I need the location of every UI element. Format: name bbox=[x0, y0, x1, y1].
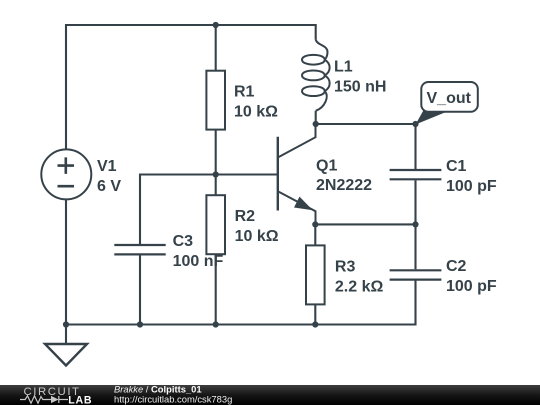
svg-text:10 kΩ: 10 kΩ bbox=[235, 228, 279, 245]
transistor Q1 bbox=[278, 124, 316, 224]
junction V_out node bbox=[412, 121, 418, 127]
svg-text:Q1: Q1 bbox=[316, 158, 337, 175]
wire R1 bottom to base node bbox=[215, 130, 217, 175]
svg-text:C1: C1 bbox=[446, 158, 467, 175]
resistor R2 bbox=[206, 195, 225, 254]
svg-text:2N2222: 2N2222 bbox=[316, 177, 372, 194]
junction collector node L1 bbox=[313, 121, 319, 127]
wire C2 top bbox=[414, 224, 416, 269]
junction ground rail V1 bbox=[63, 321, 69, 327]
wire R2 top bbox=[215, 175, 217, 196]
svg-text:R1: R1 bbox=[234, 84, 255, 101]
label R1 10 kOhm bbox=[234, 84, 278, 121]
svg-text:L1: L1 bbox=[334, 59, 353, 76]
junction top rail R1 bbox=[213, 22, 219, 28]
svg-text:R2: R2 bbox=[235, 208, 256, 225]
svg-text:V_out: V_out bbox=[427, 90, 472, 107]
label Q1 2N2222 bbox=[316, 158, 372, 194]
svg-text:http://circuitlab.com/csk783g: http://circuitlab.com/csk783g bbox=[114, 394, 232, 405]
svg-text:100 pF: 100 pF bbox=[446, 178, 497, 195]
label L1 150 nH bbox=[334, 59, 386, 96]
junction ground rail R2 bbox=[213, 321, 219, 327]
wire collector node to V_out node bbox=[316, 123, 416, 125]
wire base from C3 corner to Q1 base bbox=[140, 175, 278, 246]
junction ground rail R3 bbox=[312, 321, 318, 327]
label C2 100 pF bbox=[446, 258, 497, 295]
wire top rail from V1 to L1 bbox=[66, 25, 316, 150]
wire R2 bottom bbox=[215, 254, 217, 324]
svg-text:R3: R3 bbox=[335, 258, 356, 275]
label C3 100 nF bbox=[173, 233, 224, 270]
wire C1 bottom bbox=[414, 180, 416, 224]
svg-text:C2: C2 bbox=[446, 258, 467, 275]
capacitor C2 bbox=[390, 270, 442, 279]
svg-text:100 nF: 100 nF bbox=[173, 253, 224, 270]
CircuitLab logo diode triangle bbox=[51, 396, 59, 403]
resistor R3 bbox=[306, 245, 325, 304]
wire R3 bottom bbox=[314, 304, 316, 324]
label R3 2.2 kOhm bbox=[335, 258, 384, 295]
capacitor C3 bbox=[114, 245, 165, 254]
inductor L1 coil bbox=[302, 40, 330, 111]
svg-text:6 V: 6 V bbox=[97, 178, 121, 195]
CircuitLab logo waveform bbox=[20, 396, 68, 403]
resistor R1 bbox=[206, 71, 225, 130]
label R2 10 kOhm bbox=[235, 208, 279, 245]
node V_out flag bbox=[416, 82, 478, 125]
svg-text:V1: V1 bbox=[97, 158, 117, 175]
svg-text:2.2 kΩ: 2.2 kΩ bbox=[335, 278, 384, 295]
junction emitter node bbox=[312, 221, 318, 227]
wire R1 top bbox=[215, 25, 217, 71]
svg-text:10 kΩ: 10 kΩ bbox=[234, 104, 278, 121]
wire C1 top bbox=[414, 124, 416, 169]
wire C3 bottom bbox=[139, 255, 141, 324]
wire L1 bottom to collector node bbox=[315, 111, 317, 124]
label C1 100 pF bbox=[446, 158, 497, 195]
wire R3 top bbox=[314, 224, 316, 245]
svg-text:C3: C3 bbox=[173, 233, 194, 250]
label V1 6 V bbox=[97, 158, 121, 195]
wire ground stem bbox=[65, 325, 67, 345]
wire bottom ground rail to C2 bbox=[66, 280, 416, 324]
capacitor C1 bbox=[390, 170, 442, 179]
svg-text:100 pF: 100 pF bbox=[446, 278, 497, 295]
junction ground rail C3 bbox=[137, 321, 143, 327]
junction base node R2 bbox=[213, 171, 219, 177]
voltage source V1 bbox=[41, 149, 91, 199]
svg-text:LAB: LAB bbox=[68, 394, 92, 405]
junction C1-C2 node bbox=[412, 221, 418, 227]
footer bar bbox=[0, 385, 540, 405]
svg-text:150 nH: 150 nH bbox=[334, 79, 386, 96]
ground bbox=[45, 344, 87, 366]
transistor Q1 emitter arrow bbox=[294, 197, 313, 211]
wire emitter node to C1-C2 node bbox=[315, 223, 415, 225]
wire V1 bottom to ground rail bbox=[65, 199, 67, 324]
